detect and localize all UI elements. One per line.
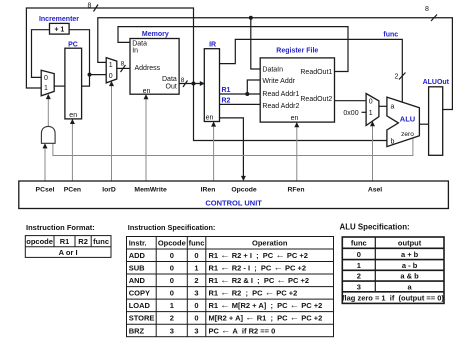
junction node result bus xyxy=(249,16,253,20)
svg-text:Memory: Memory xyxy=(142,31,169,38)
arrowhead PCen xyxy=(70,119,75,124)
memory block xyxy=(130,39,179,96)
svg-text:func: func xyxy=(383,31,398,38)
wire: PC out up to incrementer and right to IorD mux input 0 xyxy=(69,30,106,86)
svg-text:2: 2 xyxy=(170,314,174,323)
control unit box xyxy=(19,181,449,209)
svg-text:PCsel: PCsel xyxy=(36,186,55,193)
arrowhead Opcode into control unit xyxy=(241,176,246,181)
register file block xyxy=(260,58,334,122)
wire: Asel mux output to ALU a xyxy=(379,105,387,107)
arrowhead PCsel xyxy=(43,143,48,148)
svg-text:func: func xyxy=(351,239,367,248)
svg-text:R1 ← R2 - I ; PC ← PC +2: R1 ← R2 - I ; PC ← PC +2 xyxy=(209,263,307,274)
instruction specification table xyxy=(127,237,334,337)
svg-text:Opcode: Opcode xyxy=(231,186,257,193)
svg-text:0x00: 0x00 xyxy=(343,110,358,117)
svg-text:1: 1 xyxy=(44,85,48,92)
svg-text:func: func xyxy=(93,237,109,246)
bus width slash 8 on result bus xyxy=(425,6,437,21)
svg-text:0: 0 xyxy=(170,289,174,298)
svg-text:3: 3 xyxy=(357,282,361,291)
svg-text:a + b: a + b xyxy=(401,250,419,259)
arrowhead Asel xyxy=(370,121,375,126)
junction node memory data out xyxy=(192,82,196,86)
svg-text:8: 8 xyxy=(121,61,125,68)
svg-text:PC: PC xyxy=(68,41,78,48)
incrementer +1 box xyxy=(50,23,70,34)
svg-text:0: 0 xyxy=(357,250,361,259)
svg-text:a & b: a & b xyxy=(400,272,419,281)
svg-text:2: 2 xyxy=(395,74,399,81)
svg-text:1: 1 xyxy=(194,264,198,273)
svg-text:3: 3 xyxy=(170,326,174,335)
svg-text:R1: R1 xyxy=(60,237,70,246)
svg-text:0: 0 xyxy=(44,75,48,82)
wire: IorD mux output to memory Address xyxy=(117,67,130,69)
svg-text:ReadOut1: ReadOut1 xyxy=(300,69,332,76)
wire: func field from IR to ALU xyxy=(220,39,403,102)
svg-text:R1 ← R2 & I ; PC ← PC +2: R1 ← R2 & I ; PC ← PC +2 xyxy=(209,275,310,286)
svg-text:DataIn: DataIn xyxy=(262,66,283,73)
svg-text:BRZ: BRZ xyxy=(129,326,145,335)
control wire PCsel xyxy=(44,144,46,181)
svg-text:flag zero = 1 if (output ==: flag zero = 1 if (output == 0) xyxy=(342,294,444,303)
wire: memory data out to top A-bus to PC mux input 1 xyxy=(26,8,193,88)
svg-text:0: 0 xyxy=(170,264,174,273)
svg-text:ALUOut: ALUOut xyxy=(423,79,450,86)
svg-text:a - b: a - b xyxy=(402,261,418,270)
arrowhead IRen xyxy=(211,122,216,127)
svg-text:ALU: ALU xyxy=(400,114,415,123)
wire: PC mux output to PC xyxy=(54,85,65,87)
AND gate for PCsel and zero xyxy=(41,126,55,143)
svg-text:A or I: A or I xyxy=(59,248,78,257)
IorD mux xyxy=(106,58,117,83)
svg-text:SUB: SUB xyxy=(129,264,145,273)
arrowhead into IR xyxy=(200,81,205,86)
wire: memory data to ALU b input xyxy=(194,84,387,141)
register PC xyxy=(65,48,82,119)
svg-text:Opcode: Opcode xyxy=(158,239,186,248)
svg-text:LOAD: LOAD xyxy=(129,301,151,310)
control wire Asel xyxy=(372,122,374,181)
svg-text:en: en xyxy=(143,88,151,95)
ALU specification table xyxy=(342,237,444,303)
svg-text:PC ← A if R2 == 0: PC ← A if R2 == 0 xyxy=(209,325,276,336)
svg-text:Read Addr1: Read Addr1 xyxy=(262,91,299,98)
svg-text:PCen: PCen xyxy=(64,186,81,193)
control wire PCen xyxy=(71,120,73,182)
svg-text:3: 3 xyxy=(194,326,198,335)
wire: RF ReadOut1 to Memory Data In xyxy=(118,27,348,72)
svg-text:Register File: Register File xyxy=(276,48,318,55)
svg-text:+ 1: + 1 xyxy=(54,27,64,34)
svg-text:Write Addr: Write Addr xyxy=(262,78,295,85)
wire: ALU output to ALUOut register xyxy=(419,123,428,125)
svg-text:R2: R2 xyxy=(222,98,231,105)
svg-text:Read Addr2: Read Addr2 xyxy=(262,103,299,110)
svg-text:0: 0 xyxy=(194,251,198,260)
svg-text:ADD: ADD xyxy=(129,251,146,260)
svg-text:R1 ← R2 + I ; PC ← PC +2: R1 ← R2 + I ; PC ← PC +2 xyxy=(209,250,308,261)
svg-text:IorD: IorD xyxy=(102,186,116,193)
svg-text:Instr.: Instr. xyxy=(129,239,147,248)
svg-text:0: 0 xyxy=(170,251,174,260)
arrowhead MemWrite xyxy=(144,94,149,99)
junction node R1 xyxy=(245,92,249,96)
svg-text:STORE: STORE xyxy=(129,314,155,323)
svg-text:1: 1 xyxy=(357,261,361,270)
wire: Opcode from IR down to control unit xyxy=(220,118,244,179)
svg-text:AND: AND xyxy=(129,276,146,285)
svg-text:en: en xyxy=(291,115,299,122)
svg-text:a: a xyxy=(391,103,395,110)
svg-text:2: 2 xyxy=(357,272,361,281)
svg-text:0: 0 xyxy=(369,99,373,106)
bus width slash 8 on address wire xyxy=(121,61,126,73)
svg-text:IRen: IRen xyxy=(201,186,216,193)
zero flag wire from ALU to AND gate xyxy=(53,137,413,155)
svg-text:R2: R2 xyxy=(78,237,88,246)
svg-text:R1 ← M[R2 + A] ; PC ← PC +2: R1 ← M[R2 + A] ; PC ← PC +2 xyxy=(209,300,323,311)
svg-text:Out: Out xyxy=(166,84,177,91)
svg-text:en: en xyxy=(206,115,214,122)
wire: ALUOut result bus (top) to IorD mux input 1 and RF DataIn xyxy=(98,18,453,110)
svg-text:ReadOut2: ReadOut2 xyxy=(300,96,332,103)
svg-text:zero: zero xyxy=(401,131,414,138)
arrowhead mux1 select xyxy=(46,94,51,99)
control wire MemWrite xyxy=(145,95,147,181)
svg-text:Instruction Format:: Instruction Format: xyxy=(26,223,95,232)
control wire RFen xyxy=(296,123,298,181)
wire: AND output to PC mux select xyxy=(47,95,49,127)
svg-text:RFen: RFen xyxy=(288,186,305,193)
svg-text:0: 0 xyxy=(109,73,113,80)
svg-text:opcode: opcode xyxy=(26,237,53,246)
constant 0x00 to Asel mux input 1 xyxy=(343,110,366,117)
svg-text:In: In xyxy=(132,47,138,54)
svg-text:Address: Address xyxy=(135,65,161,72)
svg-text:Data: Data xyxy=(132,40,147,47)
svg-text:output: output xyxy=(398,239,422,248)
bus width slash 8 on top A-bus xyxy=(88,3,98,12)
svg-text:1: 1 xyxy=(369,110,373,117)
svg-text:ALU Specification:: ALU Specification: xyxy=(340,222,410,231)
wire: RF ReadOut2 to Asel mux input 0 xyxy=(335,100,367,102)
control unit signal labels xyxy=(36,186,383,193)
wire: R1 field to RF Read Addr1 and Write Addr xyxy=(220,80,261,94)
svg-text:1: 1 xyxy=(170,301,174,310)
svg-text:func: func xyxy=(189,239,205,248)
svg-text:COPY: COPY xyxy=(129,289,150,298)
svg-text:Asel: Asel xyxy=(368,186,382,193)
control wire IorD xyxy=(111,82,113,182)
svg-text:M[R2 + A] ← R1 ; PC ← PC +2: M[R2 + A] ← R1 ; PC ← PC +2 xyxy=(209,313,323,324)
svg-text:2: 2 xyxy=(194,276,198,285)
svg-text:0: 0 xyxy=(194,301,198,310)
svg-text:Instruction Specification:: Instruction Specification: xyxy=(128,223,216,232)
bus width slash 8 on memory data out xyxy=(181,77,188,87)
ALU U1 xyxy=(387,97,420,147)
bus width slash 2 on func wire xyxy=(395,73,406,81)
instruction format table xyxy=(25,236,111,258)
Asel mux xyxy=(366,94,379,126)
svg-text:3: 3 xyxy=(194,289,198,298)
svg-text:CONTROL UNIT: CONTROL UNIT xyxy=(205,198,262,207)
svg-text:0: 0 xyxy=(194,314,198,323)
register IR xyxy=(204,49,219,122)
control wire IRen xyxy=(213,122,215,181)
svg-text:R1 ← R2 ; PC ← PC +2: R1 ← R2 ; PC ← PC +2 xyxy=(209,288,298,299)
svg-text:8: 8 xyxy=(181,77,185,84)
svg-text:0: 0 xyxy=(170,276,174,285)
svg-text:IR: IR xyxy=(209,41,216,48)
svg-text:Incrementer: Incrementer xyxy=(39,16,79,23)
arrowhead RFen xyxy=(294,122,299,127)
register ALUOut xyxy=(429,87,443,156)
svg-text:b: b xyxy=(391,138,395,145)
wire: R2 field to RF Read Addr2 xyxy=(220,103,261,105)
svg-text:1: 1 xyxy=(109,62,113,69)
wire: incrementer output to PC mux input 0 xyxy=(32,30,50,78)
svg-text:8: 8 xyxy=(88,3,92,10)
svg-text:8: 8 xyxy=(425,6,429,13)
svg-text:en: en xyxy=(69,112,77,119)
junction node PC out xyxy=(88,73,92,77)
wire: memory data out to IR xyxy=(179,83,204,85)
svg-text:Data: Data xyxy=(162,76,177,83)
svg-text:MemWrite: MemWrite xyxy=(134,186,167,193)
PC source mux xyxy=(41,70,54,96)
arrowhead IorD xyxy=(109,81,114,86)
svg-text:Operation: Operation xyxy=(252,239,288,248)
svg-text:R1: R1 xyxy=(222,87,231,94)
